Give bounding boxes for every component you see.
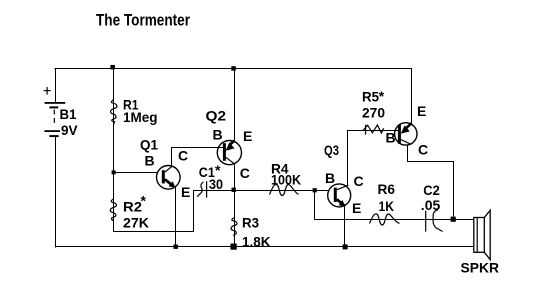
svg-text:Q2: Q2 bbox=[206, 107, 227, 123]
svg-text:B: B bbox=[145, 153, 155, 169]
svg-text:C: C bbox=[178, 148, 188, 164]
svg-text:27K: 27K bbox=[123, 215, 149, 231]
svg-text:C: C bbox=[418, 142, 428, 158]
svg-text:270: 270 bbox=[362, 104, 385, 120]
svg-text:1K: 1K bbox=[379, 198, 395, 214]
node Q1 base junction bbox=[112, 170, 116, 174]
wire Q3 collector to Q4 base bbox=[348, 130, 399, 132]
node top rail R1 junction bbox=[110, 65, 115, 70]
wire Q1 collector to Q2 base bbox=[172, 147, 224, 149]
resistor R1 bbox=[111, 100, 117, 125]
wire Q1 emitter to ground bbox=[175, 188, 177, 248]
svg-text:B: B bbox=[213, 126, 223, 142]
wire Q3 collector vertical bbox=[347, 130, 349, 186]
svg-text:1.8K: 1.8K bbox=[242, 233, 271, 249]
wire Q2 collector bbox=[234, 164, 236, 190]
speaker SPKR bbox=[474, 210, 490, 259]
wire Q4 emitter to top rail bbox=[410, 68, 412, 124]
node C2/Q4C/speaker junction bbox=[451, 217, 456, 222]
svg-text:9V: 9V bbox=[61, 122, 78, 138]
wire R3 branch vertical bbox=[234, 190, 236, 247]
resistor R4 bbox=[270, 184, 299, 195]
wire Q4 collector vertical bbox=[407, 145, 409, 163]
wire node R4 drop vertical bbox=[314, 190, 316, 220]
wire R1-R2 branch vertical bbox=[113, 68, 115, 232]
svg-text:E: E bbox=[243, 128, 252, 144]
wire R2 bottom horizontal bbox=[113, 231, 194, 233]
wire left rail lower (battery bottom lead) bbox=[55, 137, 57, 248]
wire R6 C2 row bbox=[315, 219, 475, 221]
wire Q1 base bbox=[114, 172, 158, 174]
wire top rail bbox=[55, 68, 412, 70]
svg-text:30: 30 bbox=[209, 176, 223, 192]
svg-text:Q1: Q1 bbox=[140, 136, 158, 152]
svg-text:SPKR: SPKR bbox=[461, 260, 500, 276]
svg-text:B: B bbox=[386, 130, 396, 146]
svg-text:R3: R3 bbox=[242, 214, 259, 230]
resistor R3 bbox=[231, 218, 237, 237]
capacitor C2 bbox=[426, 210, 443, 232]
svg-text:E: E bbox=[352, 200, 361, 216]
svg-text:E: E bbox=[417, 103, 426, 119]
wire C1 left vertical bbox=[193, 190, 195, 232]
svg-text:R6: R6 bbox=[378, 181, 396, 197]
svg-text:.05: .05 bbox=[421, 197, 441, 213]
wire Q1 collector vertical bbox=[171, 147, 173, 167]
resistor R2 bbox=[110, 199, 116, 221]
svg-text:1Meg: 1Meg bbox=[123, 109, 158, 125]
wire Q3 emitter to ground bbox=[344, 204, 346, 247]
svg-text:Q3: Q3 bbox=[324, 142, 339, 158]
transistor Q1 bbox=[157, 166, 181, 190]
resistor R6 bbox=[370, 214, 400, 225]
wire Q4 collector down to speaker node bbox=[453, 162, 455, 220]
resistor R5 bbox=[363, 125, 384, 135]
svg-text:R2: R2 bbox=[123, 199, 142, 215]
svg-text:E: E bbox=[181, 184, 190, 200]
capacitor C1 bbox=[197, 181, 206, 197]
node top rail Q2E junction bbox=[231, 66, 236, 71]
wire Q4 collector horizontal bbox=[408, 161, 455, 163]
node R4/Q3B junction bbox=[313, 188, 317, 192]
node Q1E ground junction bbox=[174, 245, 178, 249]
svg-text:R5: R5 bbox=[362, 89, 379, 105]
svg-text:C: C bbox=[354, 173, 364, 189]
svg-text:C2: C2 bbox=[423, 182, 440, 198]
node R3 ground junction bbox=[231, 244, 237, 250]
svg-text:B1: B1 bbox=[60, 106, 77, 122]
wire Q2 emitter to top rail bbox=[234, 68, 236, 141]
transistor Q3 bbox=[328, 184, 351, 207]
transistor Q2 bbox=[217, 141, 241, 165]
svg-text:*: * bbox=[141, 193, 147, 209]
transistor Q4 bbox=[395, 123, 417, 145]
battery B1 bbox=[44, 87, 66, 137]
node C1/Q2C/R3/R4 junction bbox=[232, 188, 236, 192]
wire left rail upper (battery top lead) bbox=[55, 68, 57, 102]
node Q3E ground junction bbox=[343, 244, 348, 249]
svg-text:The Tormenter: The Tormenter bbox=[96, 10, 190, 29]
svg-text:*: * bbox=[379, 88, 385, 104]
svg-text:C: C bbox=[240, 165, 250, 181]
wire C1 row to Q3 base bbox=[194, 190, 329, 192]
svg-text:B: B bbox=[325, 170, 335, 186]
wire bottom rail bbox=[55, 246, 474, 248]
svg-text:100K: 100K bbox=[271, 171, 301, 187]
